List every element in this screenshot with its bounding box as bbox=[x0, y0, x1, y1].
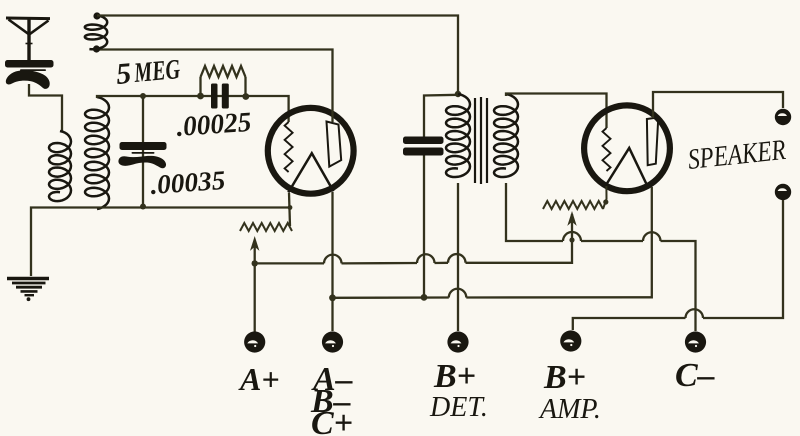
filament of V2 bbox=[606, 148, 646, 185]
terminal A- B- C+ bbox=[322, 331, 343, 352]
wire: common rail A- / B- / C+ bbox=[333, 187, 652, 298]
speaker terminal (bottom) bbox=[775, 184, 791, 200]
svg-text:C+: C+ bbox=[311, 405, 353, 436]
variable capacitor (antenna series condenser) bbox=[5, 60, 54, 89]
resistor R1 (5 MEG grid leak) bbox=[199, 77, 201, 96]
wire hop: grid return over V2 filament lead bbox=[643, 232, 661, 241]
svg-text:A+: A+ bbox=[238, 361, 280, 397]
svg-text:DET.: DET. bbox=[429, 392, 488, 423]
rheostat R2 (detector filament) bbox=[240, 223, 292, 231]
wire hop: over C- lead bbox=[686, 309, 704, 318]
svg-text:5: 5 bbox=[115, 57, 133, 91]
capacitor C1 .00025 (grid condenser) bbox=[211, 84, 229, 109]
svg-text:MEG: MEG bbox=[132, 54, 181, 89]
grid of V2 bbox=[603, 128, 611, 171]
wire: T1 secondary bottom to C- terminal (grid return) bbox=[506, 183, 696, 331]
transformer T1 secondary bbox=[494, 94, 518, 177]
wire: secondary top to grid of detector tube bbox=[97, 96, 289, 122]
wire: tuning capacitor branch bbox=[142, 96, 144, 207]
wiper arrow V2 rheostat bbox=[569, 213, 576, 224]
wire: V1 filament left leg bbox=[289, 193, 290, 226]
grid of V1 bbox=[285, 122, 293, 172]
terminal B+ DET bbox=[447, 331, 468, 352]
rheostat R3 (amplifier filament) bbox=[543, 201, 603, 209]
ground bbox=[7, 279, 49, 302]
wire: V2 plate to speaker top terminal bbox=[653, 92, 783, 118]
wire: V1 plate to tickler coil bbox=[97, 50, 333, 123]
wire hop: grid return over A+ lead bbox=[563, 232, 581, 241]
wiper arrow from A+ bbox=[254, 240, 256, 342]
variable capacitor C2 .00035 (tuning condenser) bbox=[118, 142, 166, 168]
svg-text:C–: C– bbox=[675, 357, 715, 394]
antenna bbox=[6, 18, 50, 62]
svg-text:SPEAKER: SPEAKER bbox=[686, 134, 787, 176]
svg-text:.00025: .00025 bbox=[175, 107, 252, 143]
wire: speaker bottom terminal to B+ AMP terminal bbox=[573, 200, 783, 330]
coil L1 (antenna primary) bbox=[49, 131, 71, 201]
svg-text:B+: B+ bbox=[543, 359, 586, 396]
wire: tickler top to AF transformer primary bbox=[97, 16, 458, 95]
wire hop: over bypass cap lead bbox=[417, 254, 435, 263]
transformer T1 core bbox=[475, 97, 487, 184]
capacitor C3 (plate bypass) bbox=[403, 137, 444, 156]
wire hop: over B+ DET lead bbox=[448, 254, 466, 263]
speaker terminal (top) bbox=[775, 109, 791, 125]
wire: bypass capacitor branch bbox=[424, 95, 458, 137]
coil L2 (grid secondary) bbox=[85, 97, 109, 209]
wire: T1 secondary top to V2 grid bbox=[506, 94, 607, 129]
coil L3 (tickler) bbox=[85, 15, 107, 49]
wire: rheostat to V2 filament left leg bbox=[603, 186, 607, 209]
plate of V2 bbox=[647, 117, 658, 165]
svg-text:B+: B+ bbox=[433, 358, 476, 395]
wire: antenna capacitor to primary coil bbox=[29, 84, 62, 132]
transformer T1 primary bbox=[446, 94, 470, 177]
terminal A+ bbox=[244, 331, 265, 352]
terminal C- bbox=[685, 331, 706, 352]
wire hop: rail over B+ DET lead bbox=[449, 289, 467, 298]
svg-text:.00035: .00035 bbox=[149, 165, 226, 200]
vacuum tube V1 (detector) bbox=[268, 108, 354, 194]
wire: V1 filament right leg to A- terminal bbox=[331, 192, 333, 331]
wire: T1 primary bottom to B+ DET terminal bbox=[457, 183, 459, 331]
terminal B+ AMP bbox=[560, 330, 581, 351]
svg-text:AMP.: AMP. bbox=[538, 394, 601, 425]
wire: A+ rail to amplifier rheostat wiper bbox=[255, 214, 572, 263]
filament of V1 bbox=[288, 153, 333, 192]
vacuum tube V2 (amplifier) bbox=[584, 105, 670, 191]
wire: coil bottoms to ground bbox=[31, 208, 290, 277]
wire hop: over A- lead bbox=[324, 255, 342, 264]
plate of V1 bbox=[327, 122, 342, 167]
